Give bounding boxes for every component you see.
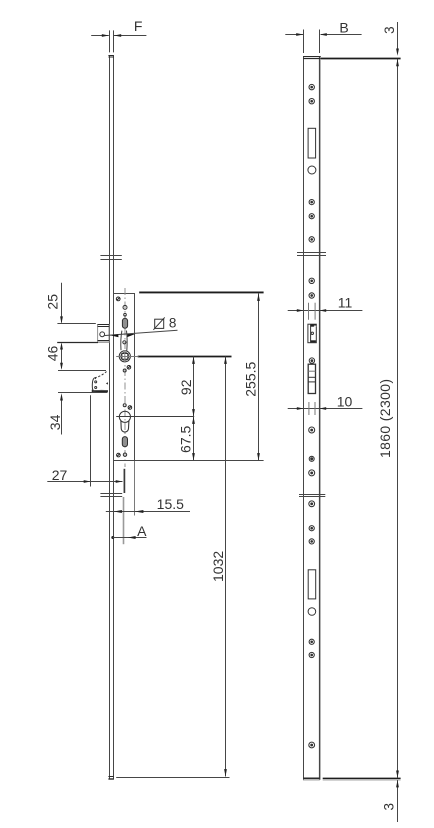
svg-text:8: 8 xyxy=(169,316,177,331)
dimension 255.5 line xyxy=(257,294,260,461)
svg-text:F: F xyxy=(134,18,143,34)
frame strip right edge shading xyxy=(320,56,322,780)
svg-text:255.5: 255.5 xyxy=(243,361,259,396)
dimension 27 line xyxy=(47,395,122,486)
lock case body xyxy=(114,294,135,461)
lever curve left xyxy=(121,331,122,351)
square 8 symbol xyxy=(153,317,164,329)
frame circle upper xyxy=(308,166,316,174)
faceplate break upper xyxy=(100,256,121,260)
frame break lower xyxy=(299,495,325,497)
svg-text:1860 (2300): 1860 (2300) xyxy=(377,379,393,458)
keeper box circle xyxy=(100,332,105,337)
bold line bottom right xyxy=(323,778,401,780)
case right edge extension down xyxy=(134,461,136,516)
svg-text:3: 3 xyxy=(382,26,397,34)
screw right of follower xyxy=(127,366,131,370)
frame strip right edge xyxy=(319,56,321,780)
dimension A line xyxy=(111,536,146,539)
bottom witness line for 1032 xyxy=(116,777,229,779)
small circle xyxy=(124,313,127,316)
small circle on lever xyxy=(123,341,126,344)
svg-text:27: 27 xyxy=(52,467,68,483)
follower cross line inside case xyxy=(116,356,138,358)
svg-text:10: 10 xyxy=(337,393,353,409)
dimension 46 line xyxy=(57,342,106,370)
follower vertical axis tick xyxy=(124,351,126,363)
small circle below follower xyxy=(123,369,126,372)
follower inner circle xyxy=(121,352,129,360)
dimension B lines xyxy=(285,30,361,54)
dimension 11 lines xyxy=(288,303,363,320)
frame strip bottom cap xyxy=(303,778,320,780)
screw bottom-left of case xyxy=(117,453,121,457)
mushroom cam keep component xyxy=(308,324,316,343)
hatched slot upper xyxy=(122,318,127,328)
lever curve right xyxy=(126,331,129,351)
drive rod faded continuation xyxy=(123,497,125,544)
euro cylinder profile xyxy=(121,421,129,432)
dimension 1860 line xyxy=(396,59,399,778)
dimension 25 line xyxy=(57,283,95,324)
dimension 92 line xyxy=(192,357,195,417)
frame break upper xyxy=(297,253,326,256)
dimension F lines xyxy=(91,30,146,52)
svg-text:67.5: 67.5 xyxy=(178,425,194,452)
frame strip left edge xyxy=(303,56,305,780)
case top bold extension line xyxy=(139,291,263,293)
dimension 67.5 line xyxy=(192,417,195,461)
frame screw holes xyxy=(309,84,315,747)
dimension 3 top lines xyxy=(396,22,399,56)
circle bottom of case xyxy=(123,453,126,456)
dimension 3 bottom lines xyxy=(396,780,399,822)
svg-text:25: 25 xyxy=(44,294,60,310)
svg-text:B: B xyxy=(339,20,348,36)
keeper box left of faceplate xyxy=(98,325,109,343)
roller block component xyxy=(308,364,315,393)
frame slot upper xyxy=(308,128,316,158)
faceplate top cap xyxy=(108,56,113,58)
circle above slot xyxy=(123,305,127,309)
dimension 15.5 line xyxy=(106,510,190,513)
follower square 8mm xyxy=(122,354,128,360)
svg-text:15.5: 15.5 xyxy=(157,496,184,512)
hatched slot lower xyxy=(122,437,127,447)
drive rod below case xyxy=(123,469,125,493)
follower outer circle xyxy=(119,351,130,362)
follower witness bold line xyxy=(138,356,232,358)
dimension 10 lines xyxy=(288,402,363,415)
leader line for square 8 xyxy=(104,330,178,337)
frame circle lower xyxy=(308,608,316,616)
faceplate bottom cap xyxy=(108,777,113,780)
screw above cylinder xyxy=(128,406,132,410)
euro cylinder circle xyxy=(119,411,130,422)
svg-text:11: 11 xyxy=(338,294,353,310)
small circle above cylinder xyxy=(123,404,126,407)
svg-text:46: 46 xyxy=(45,346,61,362)
lock case centerline xyxy=(124,288,126,467)
faceplate left edge xyxy=(109,55,111,779)
dimension 34 line xyxy=(58,393,108,435)
svg-text:34: 34 xyxy=(47,414,63,430)
cylinder witness line xyxy=(116,416,194,418)
bold line top right xyxy=(321,58,401,60)
dimension 1032 line xyxy=(224,357,227,777)
faceplate break lower xyxy=(100,494,122,497)
svg-text:1032: 1032 xyxy=(210,551,226,582)
roller pin circle xyxy=(309,358,314,364)
svg-text:3: 3 xyxy=(381,803,396,811)
screw top-left of case xyxy=(116,297,120,301)
frame slot lower xyxy=(308,570,316,599)
svg-text:92: 92 xyxy=(178,379,194,395)
frame strip top cap xyxy=(303,57,320,59)
faceplate right edge xyxy=(113,55,115,779)
hook latch piece xyxy=(92,372,108,392)
svg-text:A: A xyxy=(137,523,147,539)
case bottom witness line xyxy=(114,460,264,462)
